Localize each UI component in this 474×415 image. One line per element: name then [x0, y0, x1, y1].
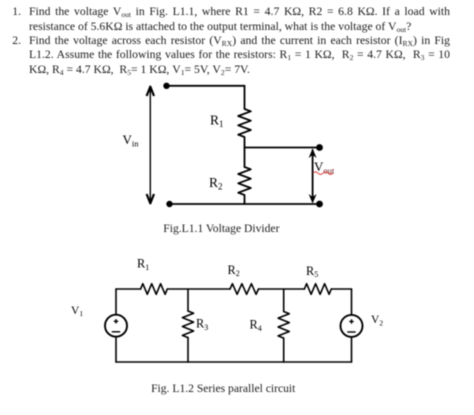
Vout dimension arrow shaft	[312, 150, 314, 201]
node input bottom terminal	[166, 201, 172, 207]
svg-text:Vin: Vin	[123, 132, 140, 149]
svg-text:R2: R2	[209, 175, 223, 192]
svg-text:R1: R1	[137, 257, 149, 272]
wire top segment R1 to R2 through node A	[167, 288, 230, 290]
V2 minus mark	[347, 331, 355, 333]
svg-text:R2: R2	[228, 263, 240, 278]
svg-text:R3: R3	[196, 317, 208, 332]
svg-text:R5: R5	[306, 264, 318, 279]
wire top segment V1 to R1 (Fig L1.2)	[116, 288, 141, 290]
resistor R5 (Fig L1.2)	[304, 284, 331, 295]
resistor R2 (Fig L1.1)	[238, 167, 251, 204]
red spellcheck squiggle under Vout	[313, 172, 333, 175]
Vout arrowhead bottom	[309, 194, 317, 204]
wire bottom (Fig L1.1)	[170, 203, 320, 205]
V2 plus mark	[349, 319, 353, 323]
wire top segment R5 to V2	[331, 288, 351, 290]
V1 plus mark	[114, 319, 118, 323]
wire bottom rail (Fig L1.2)	[116, 361, 352, 363]
wire node B down to R4	[283, 289, 285, 312]
resistor R1 (Fig L1.1)	[238, 86, 251, 167]
resistor R2 (Fig L1.2)	[230, 284, 259, 295]
wire V1 negative lead	[115, 337, 117, 362]
svg-text:R4: R4	[250, 318, 262, 333]
resistor R3 (Fig L1.2)	[182, 311, 193, 338]
wire R4 down to bottom rail	[283, 338, 285, 362]
V1 minus mark	[112, 331, 120, 333]
svg-text:V1: V1	[71, 305, 83, 318]
wire R3 down to bottom rail	[187, 338, 189, 362]
wire V2 negative lead	[351, 337, 353, 362]
caption Fig.L1.1	[163, 223, 279, 235]
node input top terminal	[163, 83, 169, 89]
voltage source V1 circle	[105, 315, 127, 337]
node Vout bottom terminal	[316, 201, 323, 208]
wire output node to Vout terminal	[245, 147, 320, 149]
Vin dimension arrow (Fig L1.1)	[147, 87, 154, 204]
resistor R4 (Fig L1.2)	[278, 312, 289, 339]
wire V2 positive lead	[351, 289, 353, 315]
wire top segment R2 to R5 through node B	[259, 288, 305, 290]
wire top (Fig L1.1 input to R1)	[167, 85, 245, 87]
resistor R1 (Fig L1.2)	[141, 284, 168, 295]
node Vout top terminal	[316, 144, 323, 151]
svg-text:V2: V2	[371, 314, 383, 327]
voltage source V2 circle	[341, 315, 363, 337]
svg-text:R1: R1	[210, 113, 224, 130]
Vout arrowhead top	[309, 149, 317, 159]
caption Fig.L1.2	[151, 383, 295, 395]
wire node A down to R3	[187, 289, 189, 311]
wire V1 positive lead	[115, 289, 117, 315]
